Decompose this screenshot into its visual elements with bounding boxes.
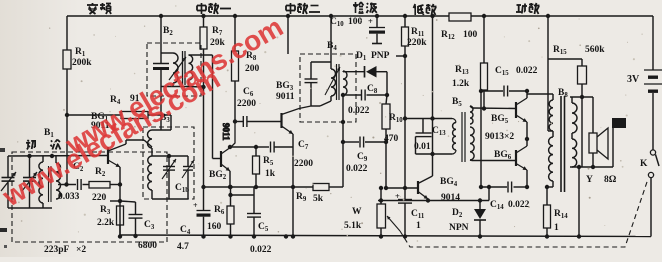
svg-text:1k: 1k	[265, 169, 276, 179]
transistor BG4 9014	[418, 176, 460, 203]
wire B5 centre line	[479, 89, 483, 189]
wire top supply rail	[67, 15, 653, 17]
transformer B8 primary upper	[549, 100, 553, 131]
transformer B1 secondary	[56, 156, 61, 199]
resistor R9 5k	[296, 184, 329, 205]
diode D1 PNP	[345, 51, 390, 95]
wire tuning bottom frame	[8, 156, 52, 208]
svg-text:220k: 220k	[407, 38, 427, 48]
wire B8 secondary down	[577, 97, 582, 239]
wire speaker bottom	[570, 128, 613, 169]
capacitor C3	[120, 201, 155, 238]
resistor R7 20k	[200, 14, 226, 189]
transformer B2 secondary	[161, 55, 206, 89]
svg-text:9014: 9014	[441, 193, 460, 203]
transformer B5 secondary upper	[470, 106, 473, 124]
svg-text:PNP: PNP	[371, 51, 390, 61]
wire AGC bus	[204, 186, 344, 188]
transformer B8 core	[561, 96, 565, 192]
label B1	[44, 128, 54, 139]
wire B8 centre tap	[546, 14, 553, 131]
resistor R15 560k	[548, 45, 605, 99]
capacitor C5 0.022	[247, 187, 272, 255]
svg-text:5k: 5k	[313, 194, 324, 204]
transistor BG5 9013	[485, 91, 529, 142]
resistor R2 220	[89, 167, 122, 203]
svg-text:200k: 200k	[72, 58, 92, 68]
svg-text:100: 100	[348, 17, 363, 27]
svg-text:2.2k: 2.2k	[97, 218, 115, 228]
transformer B2 primary coil	[169, 53, 186, 87]
node BG1 emitter junction	[110, 199, 122, 237]
transformer B5 primary	[453, 123, 456, 151]
capacitor C10 100 electrolytic	[330, 14, 385, 44]
svg-text:160: 160	[207, 222, 222, 232]
resistor R5 1k	[253, 145, 276, 189]
transistor BG6 9013	[494, 139, 529, 189]
wire B3 bottom link	[152, 198, 188, 200]
heading audio preamp 低放	[414, 4, 437, 15]
wire BG5 collector to B8	[527, 94, 553, 100]
svg-text:0.033: 0.033	[58, 192, 80, 202]
transformer B4 secondary	[343, 71, 347, 95]
transformer B5 secondary lower	[470, 127, 474, 161]
label 6800	[138, 241, 157, 251]
svg-text:9011: 9011	[221, 123, 231, 141]
label C1b	[175, 183, 189, 194]
transistor BG2 9011	[209, 122, 235, 190]
wire BG1 collector up	[126, 140, 152, 147]
wire B4 secondary top to D1	[343, 70, 345, 73]
svg-text:1: 1	[416, 221, 421, 231]
svg-text:223pF: 223pF	[44, 245, 70, 255]
speaker magnet	[612, 118, 626, 128]
capacitor C15 0.022	[481, 66, 538, 97]
svg-text:+: +	[193, 201, 198, 210]
svg-text:2200: 2200	[237, 99, 256, 109]
capacitor C14 0.022	[490, 182, 530, 212]
transistor BG1 9011	[91, 112, 126, 201]
wire tuning top and BG1 base line	[8, 154, 108, 158]
wire B3 top link	[152, 154, 188, 158]
wire rail to B4	[329, 14, 333, 69]
wire B2 secondary top to BG2 base	[189, 55, 222, 159]
svg-text:0.022: 0.022	[516, 66, 538, 76]
svg-text:560k: 560k	[585, 45, 605, 55]
svg-text:NPN: NPN	[449, 223, 469, 233]
svg-text:9013×2: 9013×2	[485, 132, 514, 142]
wire speaker top	[570, 97, 593, 133]
heading IF amp 1 中放一	[197, 3, 231, 14]
heading detector 检波	[353, 2, 377, 13]
svg-text:8Ω: 8Ω	[604, 175, 617, 185]
svg-text:3V: 3V	[627, 74, 640, 85]
wire B5 primary bottom	[416, 150, 457, 156]
variable capacitor C1a section 1	[1, 172, 16, 191]
resistor R4 91	[65, 94, 171, 119]
transformer B2 core	[183, 51, 186, 85]
transformer B3 feedback winding	[148, 115, 172, 148]
wire B2 primary down	[160, 87, 162, 131]
wire rail to B2	[159, 14, 163, 53]
wire right rail down to battery	[652, 16, 654, 70]
heading power amp 功放	[516, 3, 540, 14]
capacitor C6 2200	[237, 87, 281, 127]
svg-text:K: K	[640, 159, 648, 169]
heading converter 变频	[87, 3, 111, 14]
variable capacitor C1b	[162, 156, 176, 199]
speaker Y 8ohm	[589, 128, 608, 167]
resistor R8 200	[232, 14, 260, 122]
wire bias line	[481, 186, 507, 188]
scan speck	[0, 148, 7, 248]
wire BG6 base	[472, 160, 516, 162]
wire C6 line	[233, 119, 243, 123]
wire detector line down	[384, 142, 388, 190]
capacitor C11 1 electrolytic	[395, 188, 425, 239]
dashed mechanical link	[400, 179, 648, 247]
transformer B8 secondary	[572, 97, 577, 167]
wire rail to B5	[403, 14, 435, 176]
trimmer capacitor padder	[182, 156, 194, 199]
wire bias bus	[378, 185, 491, 203]
dashed box tuning gang 223pF x2	[12, 152, 167, 242]
dashed box B2	[147, 43, 201, 96]
label secondary 次	[51, 140, 61, 150]
svg-text:1: 1	[554, 223, 559, 233]
label primary 初	[26, 140, 36, 150]
dashed box B3	[143, 127, 194, 199]
resistor R12 100	[441, 13, 478, 41]
capacitor C2 0.033	[58, 162, 89, 202]
transformer B1 core	[49, 166, 52, 202]
resistor R14 1	[544, 185, 569, 239]
svg-text:6800: 6800	[138, 241, 157, 251]
label B5	[452, 97, 462, 108]
capacitor C7 2200	[228, 140, 313, 169]
label B3	[160, 113, 170, 124]
label B2	[163, 26, 173, 37]
transformer B3 main winding	[148, 148, 152, 199]
wire mystery rail drop	[286, 14, 290, 54]
svg-text:0.022: 0.022	[348, 106, 370, 116]
svg-text:Y: Y	[586, 175, 593, 185]
diode D2 NPN	[449, 201, 486, 239]
svg-text:220: 220	[92, 193, 107, 203]
wire BG5 base	[472, 106, 516, 110]
wire base bus	[386, 186, 417, 190]
wire bottom ground rail	[120, 235, 651, 237]
transformer B8 primary lower	[547, 131, 553, 187]
capacitor B2 internal	[153, 53, 173, 87]
svg-text:×2: ×2	[76, 245, 86, 255]
label 4.7	[177, 242, 189, 252]
svg-text:200: 200	[245, 64, 260, 74]
capacitor C13 0.01	[414, 119, 446, 155]
potentiometer W 5.1k	[344, 186, 400, 239]
label Y 8ohm	[586, 175, 617, 185]
transformer B4 core	[337, 64, 340, 100]
resistor R11 220k	[396, 14, 427, 188]
transistor BG3 9011	[276, 81, 311, 239]
resistor R1	[63, 16, 92, 184]
svg-text:0.022: 0.022	[508, 200, 530, 210]
capacitor B4 internal	[305, 62, 332, 106]
svg-text:+: +	[368, 16, 373, 26]
wire B4 secondary bottom	[341, 93, 345, 187]
resistor R13 1.2k	[452, 14, 488, 109]
label B4	[327, 41, 337, 52]
dashed box B4	[300, 54, 356, 122]
svg-text:100: 100	[463, 30, 478, 40]
svg-text:W: W	[352, 207, 362, 217]
capacitor C9 0.022	[343, 137, 388, 175]
transformer B5 core	[462, 112, 465, 162]
label 223pF x2	[44, 245, 86, 255]
variable capacitor C1a section 2	[22, 156, 37, 208]
switch K	[640, 150, 659, 237]
battery 3V	[627, 70, 662, 150]
heading IF amp 2 中放二	[286, 3, 320, 14]
capacitor C4 4.7 electrolytic	[180, 187, 211, 239]
svg-text:0.01: 0.01	[414, 142, 431, 152]
resistor R6 160	[207, 185, 254, 239]
svg-text:0.022: 0.022	[346, 164, 368, 174]
transformer B1 primary	[39, 156, 43, 208]
capacitor C8 0.022	[343, 84, 389, 116]
node ground left	[118, 234, 122, 238]
resistor R3 2.2k	[97, 205, 124, 237]
svg-text:1.2k: 1.2k	[452, 79, 470, 89]
node ground junctions	[284, 234, 288, 238]
svg-text:5.1k: 5.1k	[344, 221, 362, 231]
resistor R10 470	[382, 95, 403, 144]
svg-text:0.022: 0.022	[250, 245, 272, 255]
svg-text:4.7: 4.7	[177, 242, 189, 252]
svg-text:2200: 2200	[294, 159, 313, 169]
wire B5 primary top	[433, 119, 457, 123]
transformer B4 primary coil	[325, 67, 340, 101]
label B8	[558, 88, 568, 99]
